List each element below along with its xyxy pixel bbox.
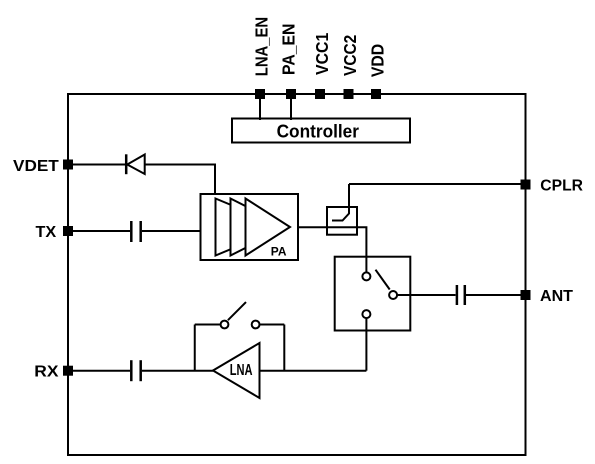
bypass switch arm (open) <box>228 302 246 320</box>
svg-text:TX: TX <box>36 224 57 241</box>
pin ANT <box>521 290 531 300</box>
LNA amplifier triangle <box>213 343 260 398</box>
wire capacitor to LNA output <box>142 370 213 372</box>
antenna switch SW1 box <box>335 257 411 331</box>
wire PA_EN pin to controller <box>290 99 292 120</box>
bypass switch left contact <box>221 321 229 329</box>
svg-text:VCC1: VCC1 <box>312 32 332 75</box>
svg-text:PA_EN: PA_EN <box>279 24 299 75</box>
svg-text:VCC2: VCC2 <box>340 34 360 76</box>
PA stage 1 triangle <box>216 199 285 256</box>
capacitor RX dc-block <box>131 360 140 381</box>
LNA bypass wire from right contact <box>260 324 285 326</box>
wire TX pin to capacitor <box>73 230 130 232</box>
pin VDD <box>371 89 381 99</box>
diode D1 cathode bar <box>125 154 128 174</box>
svg-text:RX: RX <box>34 364 59 381</box>
wire RX pin to capacitor <box>73 370 130 372</box>
svg-text:VDET: VDET <box>13 158 59 175</box>
svg-text:PA: PA <box>271 247 287 259</box>
outer package boundary <box>68 94 526 455</box>
capacitor ANT dc-block <box>457 285 465 305</box>
wire VDET pin to diode <box>73 164 126 166</box>
LNA bypass wire to switch contact <box>195 324 221 326</box>
wire switch RX throw to LNA line <box>365 318 367 371</box>
PA stage 2 triangle <box>231 199 288 256</box>
coupler box <box>327 207 357 235</box>
LNA bypass riser right <box>283 325 285 371</box>
pin VDET <box>63 160 73 170</box>
wire capacitor to PA <box>142 230 201 232</box>
PA stage 3 triangle <box>246 199 291 256</box>
svg-text:Controller: Controller <box>277 122 359 142</box>
switch common contact <box>389 291 397 299</box>
wire switch common to capacitor <box>397 294 455 296</box>
svg-text:VDD: VDD <box>368 44 388 77</box>
pin CPLR <box>521 180 531 190</box>
svg-text:ANT: ANT <box>540 288 573 305</box>
pin VCC2 <box>344 89 354 99</box>
pin LNA_EN <box>255 89 265 99</box>
diode D1 triangle <box>127 155 145 175</box>
controller block U1 <box>232 119 410 143</box>
wire LNA_EN pin to controller <box>259 99 261 120</box>
wire LNA input to switch <box>260 370 367 372</box>
wire PA output to antenna switch <box>298 227 366 256</box>
wire capacitor to ANT pin <box>466 294 521 296</box>
svg-text:LNA_EN: LNA_EN <box>252 17 272 76</box>
svg-text:LNA: LNA <box>230 362 253 379</box>
wire diode to PA detector <box>145 165 215 195</box>
pin TX <box>63 226 73 236</box>
wire into switch TX throw <box>365 257 367 273</box>
pin VCC1 <box>315 89 325 99</box>
capacitor TX dc-block <box>131 221 140 242</box>
bypass switch right contact <box>252 321 260 329</box>
switch arm <box>376 270 390 290</box>
power amplifier PA block <box>201 194 299 260</box>
switch RX throw contact <box>362 310 370 318</box>
LNA bypass riser left <box>194 325 196 371</box>
coupler pick-off arm <box>332 184 349 221</box>
wire coupler to CPLR pin <box>349 183 521 185</box>
pin RX <box>63 366 73 376</box>
switch TX throw contact <box>362 272 370 280</box>
svg-text:CPLR: CPLR <box>540 178 583 195</box>
pin PA_EN <box>286 89 296 99</box>
